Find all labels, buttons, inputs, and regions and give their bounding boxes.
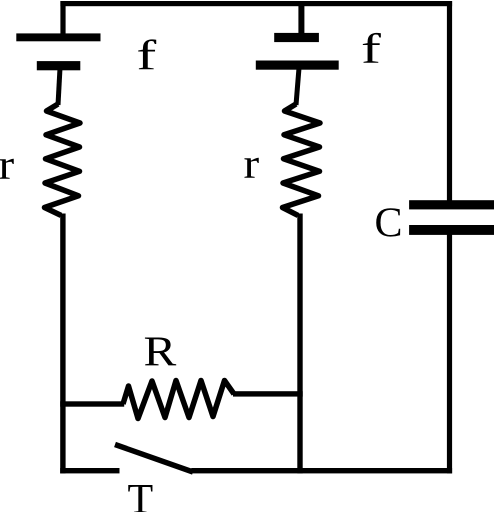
wire: battery B2 to resistor r2 [296,68,299,105]
battery B1 positive plate (long bar) [16,33,100,41]
svg-text:C: C [375,200,403,246]
wire: R left lead from left vertical [60,401,124,406]
battery B2 positive plate (long bar) [256,61,339,70]
battery B2 negative plate (short bar) [274,33,319,42]
wire: stub from top wire into battery 2 [298,1,304,37]
wire: middle vertical, resistor r2 to bottom wire [297,214,302,474]
capacitor C top plate [409,200,494,209]
resistor r2 (middle internal resistance) [283,104,321,215]
wire: R right lead to middle vertical [233,391,303,396]
wire: bottom right segment from switch to right vertical [191,468,452,473]
resistor r1 (left internal resistance) [45,104,81,215]
capacitor C bottom plate [409,225,494,235]
battery B1 negative plate (short bar) [37,61,81,70]
wire: stub from top wire into battery 1 [60,1,65,37]
switch T blade (open) [115,445,193,473]
svg-text:r: r [0,141,14,188]
wire: battery B1 to resistor r1 [58,68,60,105]
svg-text:f: f [361,26,382,72]
wire: top horizontal bus [60,1,452,6]
svg-text:r: r [244,140,260,187]
svg-text:T: T [128,477,154,512]
svg-text:R: R [144,328,177,375]
svg-text:f: f [136,32,157,78]
resistor R zigzag [123,381,234,419]
wire: bottom left segment to switch [60,468,119,473]
wire: right vertical, top wire to capacitor top plate [447,1,452,205]
wire: right vertical, capacitor bottom plate to bottom wire [447,230,452,473]
wire: left vertical, resistor r1 to bottom wire [60,214,65,474]
